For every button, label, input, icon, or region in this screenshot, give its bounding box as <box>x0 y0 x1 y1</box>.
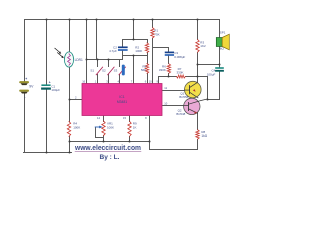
wire C1 top lead <box>46 20 48 85</box>
wire rail corner to speaker <box>219 20 221 38</box>
svg-text:IC1: IC1 <box>119 95 124 99</box>
node speaker-C4 <box>219 64 221 66</box>
svg-text:By : L.: By : L. <box>100 154 120 161</box>
node R3-C4 tap <box>197 64 199 66</box>
svg-text:100K: 100K <box>107 125 114 129</box>
wire R6 bottom lead <box>168 74 170 77</box>
svg-text:100μF: 100μF <box>51 88 60 92</box>
svg-text:4.7μF: 4.7μF <box>109 49 117 53</box>
speaker SP1 <box>216 38 222 47</box>
node rail-16 <box>86 19 88 21</box>
svg-text:14: 14 <box>97 116 100 120</box>
capacitor C4 100uF <box>216 67 223 69</box>
wire battery top lead <box>24 20 26 82</box>
switch S3 <box>119 67 125 75</box>
svg-text:BC558: BC558 <box>179 95 188 99</box>
svg-text:S3: S3 <box>114 69 118 73</box>
svg-text:1K2: 1K2 <box>200 44 206 48</box>
resistor element R4 <box>67 122 70 137</box>
svg-text:1K: 1K <box>133 125 137 129</box>
wire branch to C3 <box>153 48 169 52</box>
resistor element R9 <box>128 121 131 136</box>
capacitor C1 100uF <box>42 84 50 86</box>
wire LDR top lead <box>69 20 71 53</box>
wire branch to speaker/C4 node <box>198 64 220 66</box>
LDR1 photoresistor <box>64 52 73 67</box>
wire VR1 wiper loop <box>96 128 104 138</box>
node gndL-C1 <box>46 152 48 154</box>
wire IC pin11 to Q1 base <box>163 90 185 92</box>
svg-text:LDR1: LDR1 <box>75 58 83 62</box>
LDR light arrows <box>55 48 62 57</box>
wire R1 to IC pin10 <box>152 39 154 84</box>
resistor element R3 <box>196 40 199 53</box>
svg-text:10: 10 <box>149 80 152 84</box>
svg-text:10: 10 <box>164 102 167 106</box>
node loop-top <box>133 39 135 41</box>
node bus-S2 <box>108 59 110 61</box>
resistor element R8 <box>196 130 199 140</box>
svg-text:11: 11 <box>164 86 167 90</box>
svg-text:+: + <box>25 77 27 81</box>
switch S2 <box>108 67 114 75</box>
node bus-C3 <box>168 76 170 78</box>
node gnd-R4 <box>69 141 71 143</box>
wire R9 leads <box>129 116 131 142</box>
svg-text:S1: S1 <box>90 69 94 73</box>
node rail-R1 <box>152 19 154 21</box>
resistor element R2 <box>145 43 148 53</box>
wire C2/R2 feedback loop <box>123 40 148 56</box>
node rail-S <box>96 19 98 21</box>
node gnd-R9 <box>129 141 131 143</box>
wire pin16 column <box>86 20 88 84</box>
wire R3 top lead <box>197 20 199 40</box>
node gndL-R4 <box>69 152 71 154</box>
wire R5 leads <box>147 56 149 84</box>
svg-text:9V: 9V <box>29 84 34 88</box>
wire Q2 emitter lead <box>197 113 199 130</box>
wire rail to C2 loop top <box>133 20 135 40</box>
svg-text:SP1: SP1 <box>220 31 226 35</box>
resistor element R1 <box>151 28 154 38</box>
svg-text:M3481: M3481 <box>117 100 127 104</box>
svg-text:56K: 56K <box>141 68 146 72</box>
node pin2-tap <box>69 99 71 101</box>
resistor element VR1 <box>102 121 105 136</box>
wire speaker to C4 <box>219 47 221 68</box>
capacitor C2 4.7uF <box>119 46 127 48</box>
wire switch bus <box>87 56 123 60</box>
transistor Q2 BC548 <box>184 98 200 114</box>
svg-text:75K: 75K <box>154 32 159 36</box>
svg-text:1kΩ: 1kΩ <box>201 134 207 138</box>
svg-text:100μF: 100μF <box>207 72 216 76</box>
node loop-bottom <box>133 55 135 57</box>
wire C3-R6 lead <box>168 56 170 64</box>
wire loop to IC pin7 <box>133 56 135 84</box>
wire R4 bottom lead <box>69 137 71 153</box>
wire IC pin2 lead <box>70 99 83 101</box>
svg-text:330K: 330K <box>176 71 183 75</box>
wire S2 stubs <box>108 60 110 84</box>
blue connector bar by S3 <box>122 65 125 76</box>
capacitor C3 0.068uF <box>166 51 174 53</box>
node gnd-VR1 <box>103 141 105 143</box>
svg-text:BC548: BC548 <box>176 112 185 116</box>
svg-text:100K: 100K <box>73 125 80 129</box>
battery B1 9V <box>19 81 29 93</box>
resistor R7 330K (horizontal) <box>177 75 186 78</box>
wire top +9V rail <box>25 19 220 21</box>
svg-text:16: 16 <box>82 80 85 84</box>
wire IC pin10 to Q2 base <box>163 105 184 107</box>
wire bus to Q1/Q2 node and C4 return <box>186 77 220 100</box>
svg-text:0.068μF: 0.068μF <box>174 55 185 59</box>
svg-text:100K: 100K <box>135 49 142 53</box>
wire R8 to ground / IC pin8 <box>150 116 198 150</box>
wire LDR to R4 lead <box>69 67 71 122</box>
wire C1 bottom lead <box>46 90 48 153</box>
node rail-loop <box>133 19 135 21</box>
switch S1 <box>96 67 102 75</box>
node bus-R3col <box>197 76 199 78</box>
transistor Q1 BC558 <box>185 81 202 98</box>
wire R3 to Q1 collector <box>197 53 199 82</box>
resistor element R5 <box>145 64 148 74</box>
node bus-16 <box>86 59 88 61</box>
node rail-R3 <box>197 19 199 21</box>
wire ground bus under IC <box>70 141 150 143</box>
svg-text:330K: 330K <box>159 68 166 72</box>
node bus-S1 <box>97 59 99 61</box>
node rail-C1 <box>46 19 48 21</box>
svg-text:S2: S2 <box>102 69 106 73</box>
node gnd-pin8 <box>149 141 151 143</box>
wire pin9 to bus <box>159 77 177 84</box>
node Q-node <box>207 99 209 101</box>
wire S3 stubs <box>119 60 121 84</box>
wire rail to switch bus <box>96 20 98 60</box>
resistor element R6 <box>167 64 170 73</box>
svg-text:15: 15 <box>123 116 126 120</box>
node rail-LDR <box>69 19 71 21</box>
wire S1 stubs <box>97 60 99 84</box>
wire R1 top lead <box>152 20 154 28</box>
IC pin numbers <box>75 80 168 120</box>
wire bottom-left ground rail <box>24 152 72 154</box>
wire C4 bottom lead <box>219 72 221 100</box>
wire VR1 leads <box>103 116 105 142</box>
wire battery bottom lead <box>24 94 26 153</box>
IC1 melody generator <box>82 84 162 116</box>
